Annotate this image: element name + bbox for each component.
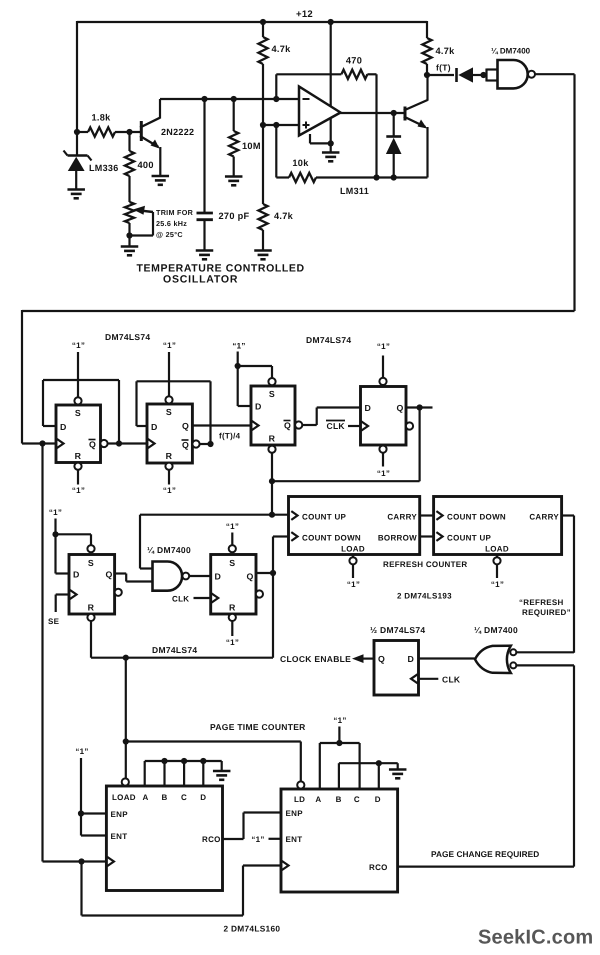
svg-text:CLK: CLK — [172, 595, 189, 604]
watermark SeekIC.com — [478, 927, 593, 949]
flip-flop FF7 box — [374, 641, 419, 696]
svg-text:“1”: “1” — [251, 835, 264, 844]
FF4 label 1 bottom — [377, 469, 390, 478]
U3 pin BORROW — [378, 534, 417, 543]
FF1 label 1 top — [72, 341, 85, 350]
op-amp U1 LM311 — [299, 87, 341, 136]
U7 enable rail — [80, 758, 82, 836]
svg-text:LM336: LM336 — [89, 163, 119, 173]
wire op-amp pin1 strobe — [310, 134, 331, 143]
svg-text:“1”: “1” — [75, 747, 88, 756]
svg-text:Q: Q — [378, 654, 385, 664]
node 10k/diode — [391, 174, 397, 180]
wire op-amp power vertical — [330, 22, 332, 143]
wire FF2 Q to FF3 clock — [192, 424, 251, 426]
node plus-input/10k — [273, 122, 279, 128]
FF4 S bubble — [379, 378, 386, 385]
wire 470 right vertical — [375, 74, 377, 177]
svg-text:SeekIC.com: SeekIC.com — [478, 927, 593, 949]
svg-text:S: S — [269, 389, 275, 399]
node FF3 1-rail junction — [235, 363, 241, 369]
wire FF3R to COUNT UP — [272, 514, 289, 516]
FF2 S bubble — [165, 396, 172, 403]
svg-text:S: S — [75, 408, 81, 418]
resistor R 10M — [229, 99, 238, 176]
svg-text:“1”: “1” — [377, 469, 390, 478]
node junction 1.8k / 400 / base — [126, 129, 132, 135]
svg-text:+12: +12 — [296, 9, 313, 20]
FF2 label 1 bottom — [163, 486, 176, 495]
svg-text:½ DM74LS74: ½ DM74LS74 — [370, 625, 425, 635]
wire U4 CARRY to NOR — [516, 516, 574, 653]
label REFRESH REQUIRED — [519, 598, 571, 617]
FF1 pin S — [75, 408, 81, 418]
svg-text:R: R — [75, 451, 82, 461]
svg-text:4.7k: 4.7k — [436, 46, 456, 56]
FF3 pin Qbar — [284, 421, 292, 431]
FF5 S wire — [56, 534, 92, 545]
wire U3 CARRY to U4 COUNT DOWN — [420, 514, 434, 516]
FF4 clock stub — [348, 425, 361, 427]
zener diode LM336 — [64, 132, 92, 189]
resistor R 470 — [341, 70, 376, 79]
FF5 R bubble — [87, 614, 94, 621]
FF3 label 1 top — [232, 342, 245, 351]
NAND gate U2 body — [498, 60, 528, 88]
svg-text:D: D — [255, 402, 262, 412]
wire clock row to FF1 — [22, 442, 56, 444]
svg-text:COUNT DOWN: COUNT DOWN — [302, 534, 361, 543]
wire plus input — [263, 124, 299, 126]
svg-text:Q: Q — [182, 440, 189, 450]
label DM74LS74 middle — [152, 645, 197, 655]
node minus-input/feedback — [273, 96, 279, 102]
FF3 pin D — [255, 402, 262, 412]
FF6 S wire — [231, 533, 233, 546]
svg-text:TRIM FOR: TRIM FOR — [156, 208, 194, 217]
U3 LOAD bubble — [349, 555, 356, 565]
svg-text:f(T)/4: f(T)/4 — [219, 432, 241, 441]
FF1 pin R — [75, 451, 82, 461]
label 4.7k upper-right — [436, 46, 456, 56]
svg-text:SE: SE — [48, 617, 60, 626]
svg-text:S: S — [229, 558, 235, 568]
FF2 feedback wire Qbar to D — [137, 381, 211, 444]
wire U3 BORROW to U4 COUNT UP — [420, 535, 434, 537]
svg-text:COUNT DOWN: COUNT DOWN — [447, 513, 506, 522]
svg-text:“1”: “1” — [163, 486, 176, 495]
trimmer wiper arrow — [130, 206, 154, 236]
ground below 270pF — [196, 251, 214, 260]
svg-text:Q: Q — [89, 440, 96, 450]
NAND gate U2 output bubble — [528, 71, 535, 78]
FF2 pin R — [166, 451, 173, 461]
svg-text:DM74LS74: DM74LS74 — [105, 332, 150, 342]
capacitor C 270pF — [197, 99, 213, 250]
FF6 label 1 top — [226, 522, 239, 531]
FF3 R bubble — [268, 446, 275, 453]
svg-text:PAGE CHANGE REQUIRED: PAGE CHANGE REQUIRED — [431, 849, 539, 859]
svg-text:2 DM74LS193: 2 DM74LS193 — [397, 592, 452, 601]
svg-text:A: A — [315, 795, 321, 804]
resistor R 4.7k upper-left — [258, 22, 267, 126]
svg-text:400: 400 — [138, 160, 154, 170]
counter U8 DM74LS160 box — [281, 789, 398, 892]
FF5 S bubble — [87, 545, 94, 552]
FF5 pin D — [73, 570, 80, 580]
NOR input bubble bottom — [510, 662, 516, 668]
FF2 clock mark — [148, 439, 155, 448]
wire FF5 Q to NAND3 — [115, 574, 153, 582]
FF7 pin D — [408, 654, 415, 664]
label CLK right — [442, 675, 461, 685]
svg-text:CLOCK ENABLE: CLOCK ENABLE — [280, 654, 351, 664]
svg-text:Q: Q — [284, 421, 291, 431]
wire loop bottom horizontal — [22, 310, 575, 312]
wire clock return to counter2 — [82, 862, 282, 916]
node trim wiper junction — [126, 232, 132, 238]
NOR gate U6 body — [475, 646, 511, 673]
flip-flop FF6 DM74LS74 box — [211, 555, 256, 615]
svg-text:D: D — [365, 403, 372, 413]
svg-text:“1”: “1” — [347, 580, 360, 589]
wire left vertical from rail — [76, 21, 78, 133]
svg-text:LOAD: LOAD — [112, 793, 136, 802]
FF5 R wire down — [90, 621, 92, 658]
ground below Q1 emitter — [152, 176, 170, 185]
resistor R 4.7k lower-left — [258, 125, 267, 250]
node 10k/470 — [373, 174, 379, 180]
svg-text:LD: LD — [294, 795, 305, 804]
U8 ground — [389, 763, 407, 778]
FF4 pin D — [365, 403, 372, 413]
U8 clock mark — [282, 861, 289, 870]
FF6 S bubble — [229, 545, 236, 552]
U8 pin labels LD A B C D — [294, 795, 381, 804]
U7 ABCD ground — [213, 761, 231, 780]
FF2 R bubble — [165, 463, 172, 470]
counter U4 DM74LS193 box — [434, 497, 562, 555]
node clock branch down — [39, 440, 45, 446]
svg-text:Q: Q — [247, 572, 254, 582]
node junction left rail / 1.8k / LM336 — [74, 129, 80, 135]
svg-text:D: D — [200, 793, 206, 802]
label CLK middle — [172, 595, 189, 604]
transistor Q1 2N2222 — [140, 99, 160, 175]
node U7 ENP junction — [78, 810, 84, 816]
svg-text:25.6 kHz: 25.6 kHz — [156, 219, 187, 228]
diode D1 clamp — [386, 113, 402, 178]
trimmer potentiometer TRIM — [125, 202, 134, 236]
wire reset to LOAD rail — [125, 658, 127, 779]
FF6 Qbar bubble — [256, 590, 263, 597]
FF3 output bubble — [295, 421, 302, 428]
svg-text:f(T): f(T) — [436, 63, 451, 73]
wire NOR bottom input — [516, 665, 574, 866]
label CLOCK ENABLE — [280, 654, 351, 664]
svg-text:D: D — [60, 422, 67, 432]
label quarter DM7400 top — [491, 47, 531, 56]
FF5 pin Q — [106, 570, 113, 580]
FF2 S wire to 1 — [168, 352, 170, 397]
FF4 R bubble — [379, 446, 386, 453]
svg-text:CLK: CLK — [327, 421, 346, 431]
svg-text:10M: 10M — [242, 141, 261, 151]
FF4 S wire to 1 — [382, 356, 384, 379]
U8 pin ENP — [286, 809, 304, 818]
svg-text:¼ DM7400: ¼ DM7400 — [491, 47, 531, 56]
wire NOR output to FF7 D — [419, 657, 476, 659]
resistor R 4.7k upper-right — [422, 21, 431, 76]
U7 ABCD stubs — [145, 761, 222, 786]
U3 LOAD wire to 1 — [352, 564, 354, 578]
node FF4 Q junction — [417, 404, 423, 410]
FF5 SE wire — [56, 595, 69, 613]
svg-text:C: C — [354, 795, 360, 804]
label 4.7k lower-left — [274, 211, 294, 221]
FF3 S bubble — [268, 378, 275, 385]
FF2 output bubble — [192, 440, 199, 447]
FF1 pin Qbar — [89, 440, 97, 450]
svg-text:RCO: RCO — [202, 835, 221, 844]
U3 pin CARRY — [387, 513, 417, 522]
label 400 — [138, 160, 154, 170]
U8 label 1 ENT — [251, 835, 264, 844]
wire to ground op-amp — [330, 143, 332, 152]
U7 pin labels LOAD A B C D — [112, 793, 206, 802]
wire loop right vertical — [573, 74, 575, 311]
svg-text:“1”: “1” — [491, 580, 504, 589]
FF6 R wire to 1 — [231, 621, 233, 636]
node FF6 Q junction — [270, 570, 276, 576]
wire FF4 Q down to reset line — [272, 408, 420, 482]
label 10M — [242, 141, 261, 151]
node LOAD rail junction — [123, 738, 129, 744]
node gate input tie — [480, 72, 486, 78]
FF1 R wire to 1 — [77, 470, 79, 485]
wire FF4 Q output — [406, 406, 433, 408]
NAND gate U5 output bubble — [182, 573, 189, 580]
U4 pin CARRY — [529, 513, 559, 522]
flip-flop FF1 DM74LS74 box — [56, 405, 101, 463]
U7 ENT wire — [81, 834, 106, 836]
node collector/270pF — [201, 96, 207, 102]
FF1 S bubble — [74, 397, 81, 404]
ground below trimmer — [121, 247, 139, 256]
svg-text:C: C — [181, 793, 187, 802]
FF5 D wire — [56, 572, 70, 574]
FF6 pin D — [215, 572, 222, 582]
label quarter DM7400 middle — [147, 545, 191, 555]
U4 label 1 — [491, 580, 504, 589]
svg-text:ENP: ENP — [286, 809, 304, 818]
U8 pin ENT — [286, 835, 303, 844]
svg-text:R: R — [269, 434, 276, 444]
U7 ABCD tie dots — [161, 758, 206, 764]
CLOCK ENABLE arrow — [352, 654, 374, 663]
label LM311 — [340, 186, 369, 196]
svg-text:¼ DM7400: ¼ DM7400 — [147, 545, 191, 555]
node U8 D tie — [376, 760, 382, 766]
FF2 pin Q — [182, 421, 189, 431]
svg-text:“1”: “1” — [72, 341, 85, 350]
ground below LM336 — [67, 190, 85, 199]
label PAGE CHANGE REQUIRED — [431, 849, 539, 859]
transistor Q2 output — [404, 75, 428, 178]
FF1 S wire to 1 — [77, 352, 79, 398]
FF5 pin R — [88, 603, 95, 613]
U7 label 1 — [75, 747, 88, 756]
resistor R 400 — [125, 132, 134, 202]
FF2 label 1 top — [163, 341, 176, 350]
svg-text:2 DM74LS160: 2 DM74LS160 — [224, 924, 281, 934]
svg-text:S: S — [88, 558, 94, 568]
label REFRESH COUNTER — [383, 560, 468, 569]
svg-text:R: R — [166, 451, 173, 461]
label 270 pF — [219, 211, 250, 221]
wire op-amp output — [339, 112, 405, 114]
label quarter DM7400 right — [474, 625, 518, 635]
label half DM74LS74 — [370, 625, 425, 635]
ground below 10M — [225, 177, 243, 186]
wire reset line — [91, 657, 273, 659]
FF4 label 1 top — [377, 342, 390, 351]
svg-text:4.7k: 4.7k — [274, 211, 294, 221]
NAND gate U5 body — [153, 562, 183, 591]
svg-text:“1”: “1” — [226, 522, 239, 531]
label DM74LS74 left pair — [105, 332, 150, 342]
NOR input bubble top — [510, 649, 516, 655]
U8 1 stub — [338, 727, 340, 744]
U8 B D tie to ground — [339, 763, 398, 789]
power rail +12 label — [296, 9, 313, 20]
U3 pin LOAD — [341, 545, 365, 554]
FF5 label 1 — [49, 508, 62, 517]
counter U7 DM74LS160 box — [106, 786, 222, 891]
label CLKbar — [326, 421, 345, 432]
FF3 clock mark — [252, 421, 259, 430]
label LM336 — [89, 163, 119, 173]
FF3 S wire — [238, 366, 272, 378]
U7 clock wire — [43, 860, 107, 862]
node FF3 R reset junction — [269, 478, 275, 484]
label 470 — [346, 56, 362, 66]
resistor R 1.8k — [77, 127, 142, 136]
node COUNT UP junction — [269, 512, 275, 518]
U3 pin COUNT UP — [291, 511, 346, 521]
FF4 R wire to 1 — [382, 453, 384, 467]
svg-text:270 pF: 270 pF — [219, 211, 250, 221]
U4 LOAD wire to 1 — [496, 564, 498, 578]
label 10k — [292, 158, 309, 168]
FF3 pin R — [269, 434, 276, 444]
svg-text:CARRY: CARRY — [387, 513, 417, 522]
U7 LOAD bubble — [122, 778, 129, 785]
node FF5 S junction — [52, 531, 58, 537]
FF1 output bubble — [100, 440, 107, 447]
U3 label 1 — [347, 580, 360, 589]
node plus-input/4.7k — [260, 122, 266, 128]
node FF2 Qbar corner — [207, 441, 213, 447]
svg-text:“1”: “1” — [49, 508, 62, 517]
U8 ENT stub — [269, 838, 282, 840]
svg-text:“1”: “1” — [72, 486, 85, 495]
node FF1 Qbar junction — [116, 440, 122, 446]
wire FF6 Q down to reset line — [272, 573, 274, 658]
FF3 pin S — [269, 389, 275, 399]
label SE — [48, 617, 60, 626]
FF1 clock mark — [57, 439, 64, 448]
svg-text:RCO: RCO — [369, 863, 388, 872]
wire NAND3 output to FF6 D — [189, 575, 211, 577]
node reset line to page counter — [123, 655, 129, 661]
NAND gate U2 quarter DM7400 input tie — [487, 69, 498, 82]
FF5 clock mark — [70, 590, 77, 599]
wire trim to ground — [128, 236, 130, 247]
FF6 pin R — [229, 603, 236, 613]
U4 pin COUNT UP — [436, 532, 491, 542]
wire feedback top — [276, 73, 341, 75]
U7 pin ENT — [111, 832, 128, 841]
U4 pin COUNT DOWN — [436, 511, 506, 521]
svg-text:¼ DM7400: ¼ DM7400 — [474, 625, 518, 635]
svg-text:REFRESH COUNTER: REFRESH COUNTER — [383, 560, 468, 569]
node op-amp ground junction — [328, 140, 334, 146]
flip-flop FF3 DM74LS74 box — [251, 386, 295, 445]
wire LOAD link to counter2 — [126, 742, 301, 782]
wire NAND output loop right — [535, 73, 575, 75]
svg-text:D: D — [408, 654, 415, 664]
svg-text:CLK: CLK — [442, 675, 461, 685]
FF3 D wire — [238, 366, 251, 406]
FF6 CLK stub — [194, 597, 211, 599]
flip-flop FF2 DM74LS74 box — [147, 404, 192, 463]
svg-text:ENP: ENP — [111, 810, 129, 819]
svg-text:@ 25°C: @ 25°C — [156, 230, 183, 239]
FF2 pin Qbar — [182, 440, 190, 450]
svg-text:D: D — [375, 795, 381, 804]
ground below 4.7k lower-left — [254, 251, 272, 260]
svg-text:“1”: “1” — [333, 716, 346, 725]
svg-text:LOAD: LOAD — [341, 545, 365, 554]
wire 10k from plus node — [276, 125, 289, 178]
U7 pin RCO — [202, 835, 221, 844]
node rail/op-amp power — [328, 19, 334, 25]
svg-text:B: B — [161, 793, 167, 802]
flip-flop FF5 DM74LS74 box — [69, 555, 115, 615]
U3 pin COUNT DOWN — [291, 532, 361, 542]
FF4 Qbar bubble — [406, 422, 413, 429]
FF2 R wire to 1 — [168, 470, 170, 485]
U7 ENP wire — [81, 812, 106, 814]
FF6 R bubble — [229, 614, 236, 621]
wire FF3 Qbar to FF4 D — [302, 408, 361, 426]
wire NAND3 top input from COUNT UP line — [140, 515, 272, 569]
FF1 label 1 bottom — [72, 486, 85, 495]
counter U3 DM74LS193 box — [289, 497, 420, 555]
label DM74LS74 right pair — [306, 335, 351, 345]
wire long left rail to page counter clock — [41, 444, 43, 862]
ground op-amp — [322, 153, 340, 162]
wire collector node row — [160, 98, 299, 100]
svg-text:470: 470 — [346, 56, 362, 66]
svg-text:“1”: “1” — [232, 342, 245, 351]
label 2 DM74LS160 — [224, 924, 281, 934]
label TRIM FOR 25.6 kHz @ 25°C — [156, 208, 194, 239]
FF5 1-rail — [54, 519, 56, 574]
label 2N2222 — [161, 127, 194, 137]
svg-text:D: D — [151, 422, 158, 432]
